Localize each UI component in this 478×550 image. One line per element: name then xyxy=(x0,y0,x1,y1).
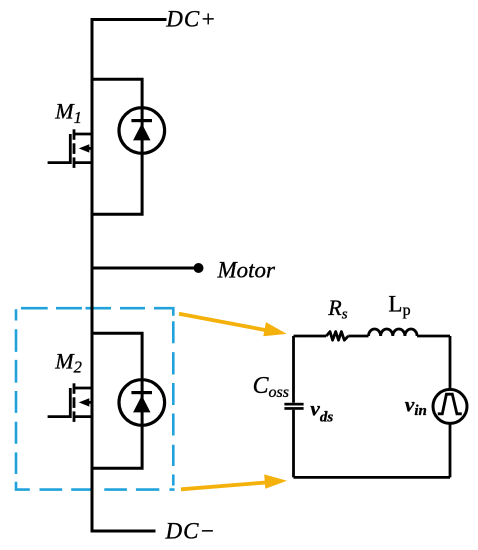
svg-text:DC−: DC− xyxy=(165,519,216,544)
svg-text:Motor: Motor xyxy=(217,257,277,282)
svg-text:p: p xyxy=(403,302,411,319)
svg-text:L: L xyxy=(388,291,402,316)
svg-text:DC+: DC+ xyxy=(165,6,216,31)
